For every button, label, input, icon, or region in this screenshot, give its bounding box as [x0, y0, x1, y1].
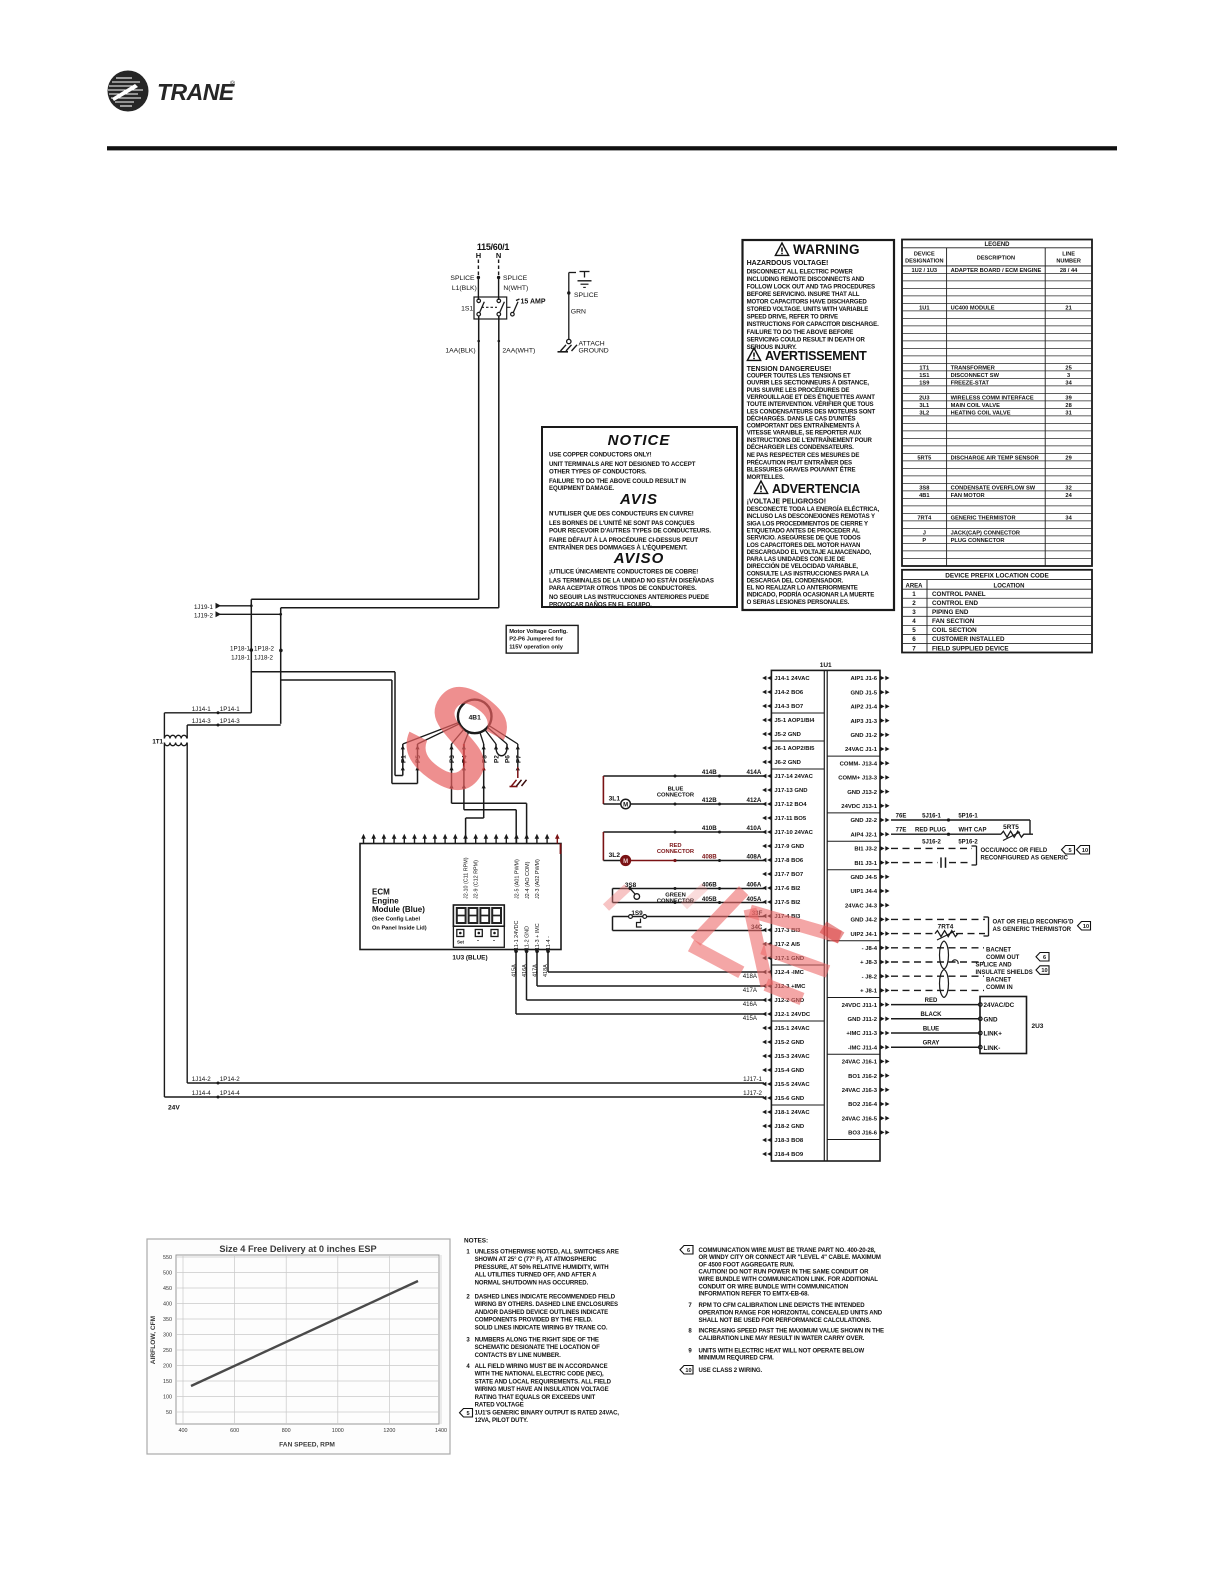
controller 1U1 box [771, 670, 880, 1161]
notice box [542, 427, 737, 607]
svg-text:ETIQUETADO ANTES DE PROCEDER A: ETIQUETADO ANTES DE PROCEDER AL [747, 527, 860, 534]
wire P4 to J2-5 [464, 809, 516, 811]
svg-text:250: 250 [163, 1348, 172, 1354]
svg-text:COMMUNICATION WIRE MUST BE TRA: COMMUNICATION WIRE MUST BE TRANE PART NO… [699, 1248, 876, 1254]
dashed J8-2 [891, 975, 984, 977]
svg-text:BO3 J16-6: BO3 J16-6 [848, 1131, 878, 1137]
svg-text:200: 200 [163, 1364, 172, 1370]
watermark faint stripe A [606, 888, 628, 908]
svg-text:WIRELESS COMM INTERFACE: WIRELESS COMM INTERFACE [951, 395, 1034, 401]
svg-text:1J18-2: 1J18-2 [254, 654, 273, 661]
svg-text:TOUTE INTERVENTION. VÉRIFIER: TOUTE INTERVENTION. VÉRIFIER QUE TOUS [747, 400, 874, 408]
svg-text:UNITS WITH ELECTRIC HEAT WILL: UNITS WITH ELECTRIC HEAT WILL NOT OPERAT… [699, 1348, 865, 1354]
dashed BI1 J3-1 with capacitor [891, 862, 938, 864]
svg-text:417A: 417A [533, 964, 539, 977]
svg-text:25: 25 [1065, 365, 1071, 371]
svg-text:J15-6 GND: J15-6 GND [774, 1096, 804, 1102]
svg-text:AIP2 J1-4: AIP2 J1-4 [850, 705, 877, 711]
wire 417A J11-3 to J12-3 [536, 950, 538, 987]
svg-text:1U3 (BLUE): 1U3 (BLUE) [452, 955, 487, 962]
svg-text:COUPER TOUTES LES TENSIONS ET: COUPER TOUTES LES TENSIONS ET [747, 373, 851, 380]
svg-text:TRANE: TRANE [157, 79, 235, 105]
svg-text:SCHEMATIC DESIGNATE THE LOCATI: SCHEMATIC DESIGNATE THE LOCATION OF [475, 1345, 601, 1351]
svg-text:H: H [476, 251, 481, 260]
svg-text:CALIBRATION LINE MAY RESULT IN: CALIBRATION LINE MAY RESULT IN WATER CAR… [699, 1336, 865, 1342]
svg-text:ADAPTER BOARD / ECM ENGINE: ADAPTER BOARD / ECM ENGINE [951, 268, 1042, 274]
svg-text:1AA(BLK): 1AA(BLK) [445, 348, 475, 355]
wire 2AA left vertical [280, 608, 282, 724]
svg-text:NOTICE: NOTICE [608, 432, 671, 449]
svg-text:M: M [623, 859, 628, 865]
svg-text:1P18-2: 1P18-2 [254, 645, 275, 652]
svg-text:CONNECTOR: CONNECTOR [657, 849, 695, 855]
svg-text:J6-1 AOP2/BI5: J6-1 AOP2/BI5 [774, 746, 815, 752]
svg-text:PUIS SUIVRE LES PROCÉDURES DE: PUIS SUIVRE LES PROCÉDURES DE [747, 386, 850, 394]
svg-text:RED: RED [925, 998, 938, 1004]
svg-text:24V: 24V [168, 1105, 180, 1112]
svg-text:SPEED DRIVE, REFER TO DRIVE: SPEED DRIVE, REFER TO DRIVE [747, 314, 838, 321]
watermark letter E strokes [750, 909, 767, 986]
svg-text:408A: 408A [747, 853, 762, 860]
svg-text:2U3: 2U3 [1032, 1023, 1044, 1030]
svg-text:TRANSFORMER: TRANSFORMER [951, 365, 995, 371]
svg-text:BLESSURES GRAVES POUVANT ÊTRE: BLESSURES GRAVES POUVANT ÊTRE [747, 466, 856, 474]
svg-text:WARNING: WARNING [793, 242, 860, 257]
tag 10 bacnet [1036, 966, 1049, 975]
svg-text:450: 450 [163, 1286, 172, 1292]
wire 1AA left vertical [250, 599, 252, 713]
svg-text:LOS CAPACITORES DEL MOTOR HAYA: LOS CAPACITORES DEL MOTOR HAYAN [747, 542, 861, 549]
svg-text:1S1: 1S1 [461, 306, 473, 313]
svg-text:ADVERTENCIA: ADVERTENCIA [772, 482, 860, 496]
svg-text:DISCHARGE AIR TEMP SENSOR: DISCHARGE AIR TEMP SENSOR [951, 455, 1039, 461]
svg-text:J18-1 24VAC: J18-1 24VAC [774, 1110, 810, 1116]
svg-text:J17-13 GND: J17-13 GND [774, 788, 807, 794]
ECM module box [360, 844, 561, 950]
wire P3 to J2-4 [452, 802, 527, 804]
svg-text:24VAC J16-3: 24VAC J16-3 [842, 1088, 878, 1094]
svg-text:3L2: 3L2 [609, 852, 621, 859]
wire 418A J11-4 to J12-4 [547, 950, 549, 973]
svg-text:NUMBER: NUMBER [1056, 259, 1081, 265]
svg-text:PRESSURE, AT 50% RELATIVE HUMI: PRESSURE, AT 50% RELATIVE HUMIDITY, WITH [475, 1265, 609, 1271]
svg-text:Motor Voltage Config.: Motor Voltage Config. [509, 629, 568, 635]
svg-text:FAILURE TO DO THE ABOVE COULD: FAILURE TO DO THE ABOVE COULD RESULT IN [549, 478, 686, 485]
svg-text:J11-4 -: J11-4 - [546, 936, 552, 953]
svg-text:CONTACTS BY LINE NUMBER.: CONTACTS BY LINE NUMBER. [475, 1353, 561, 1359]
svg-text:J5-2 GND: J5-2 GND [774, 732, 801, 738]
svg-text:SPLICE: SPLICE [503, 275, 528, 282]
svg-text:412B: 412B [702, 797, 717, 804]
svg-text:CUSTOMER INSTALLED: CUSTOMER INSTALLED [932, 636, 1005, 643]
ECM top right red wire [560, 844, 562, 855]
svg-text:MOTOR CAPACITORS HAVE DISCHARG: MOTOR CAPACITORS HAVE DISCHARGED [747, 299, 868, 306]
svg-text:J17-6 BI2: J17-6 BI2 [774, 886, 801, 892]
svg-text:COMM- J13-4: COMM- J13-4 [840, 761, 878, 767]
svg-text:FAIRE DÉFAUT À LA PROCÉDURE CI: FAIRE DÉFAUT À LA PROCÉDURE CI-DESSUS PE… [549, 536, 698, 544]
svg-text:FAN SECTION: FAN SECTION [932, 618, 975, 625]
svg-text:28: 28 [1065, 403, 1071, 409]
svg-text:Set: Set [457, 940, 465, 945]
svg-text:5: 5 [466, 1411, 469, 1417]
wire 416A J11-2 to J12-2 [526, 950, 528, 1001]
svg-text:HAZARDOUS VOLTAGE!: HAZARDOUS VOLTAGE! [747, 260, 829, 267]
svg-text:24VDC J13-1: 24VDC J13-1 [841, 804, 877, 810]
svg-text:418A: 418A [743, 973, 758, 980]
fan motor 4B1 [458, 700, 492, 734]
svg-text:1U1: 1U1 [820, 662, 832, 669]
dashed J8-3 [891, 961, 984, 963]
svg-text:416A: 416A [522, 964, 528, 977]
svg-text:COMM OUT: COMM OUT [986, 955, 1020, 961]
svg-text:400: 400 [163, 1302, 172, 1308]
1U1 left group lines [771, 712, 824, 714]
legend table [902, 240, 1092, 567]
svg-text:CONDENSATE OVERFLOW SW: CONDENSATE OVERFLOW SW [951, 485, 1036, 491]
svg-text:1J18-1: 1J18-1 [231, 654, 250, 661]
warning heading [775, 243, 788, 255]
svg-text:WITH THE NATIONAL ELECTRIC COD: WITH THE NATIONAL ELECTRIC CODE (NEC), [475, 1372, 604, 1378]
svg-text:OUVRIR LES SECTIONNEURS À DIST: OUVRIR LES SECTIONNEURS À DISTANCE, [747, 380, 870, 387]
svg-text:24VAC J1-1: 24VAC J1-1 [845, 747, 878, 753]
svg-text:WIRE BUNDLE WITH COMMUNICATION: WIRE BUNDLE WITH COMMUNICATION LINK. FOR… [699, 1277, 879, 1283]
connector dots on columns [401, 745, 405, 749]
svg-text:1: 1 [912, 591, 916, 598]
svg-text:O SERIAS LESIONES PERSONALES.: O SERIAS LESIONES PERSONALES. [747, 599, 850, 606]
svg-text:®: ® [230, 80, 236, 88]
svg-text:418A: 418A [543, 964, 549, 977]
svg-text:ECM: ECM [372, 888, 390, 897]
svg-text:LAS TERMINALES DE LA UNIDAD NO: LAS TERMINALES DE LA UNIDAD NO ESTÁN DIS… [549, 578, 714, 585]
svg-text:AVISO: AVISO [613, 550, 665, 567]
svg-text:RED PLUG: RED PLUG [915, 828, 946, 834]
svg-text:AIP1 J1-6: AIP1 J1-6 [850, 676, 877, 682]
svg-text:7RT4: 7RT4 [938, 924, 954, 931]
ECM 7-segment display [453, 905, 504, 926]
top rule [107, 146, 1117, 150]
3L1 loop vertical [602, 776, 604, 804]
svg-text:1U1'S GENERIC BINARY OUTPUT IS: 1U1'S GENERIC BINARY OUTPUT IS RATED 24V… [475, 1411, 620, 1417]
1U1 right group lines [827, 755, 880, 757]
fan motor leads [403, 716, 475, 744]
3L2 loop vertical [602, 832, 604, 861]
svg-text:1T1: 1T1 [919, 365, 929, 371]
svg-text:AIRFLOW, CFM: AIRFLOW, CFM [150, 1315, 157, 1364]
svg-text:GND J4-5: GND J4-5 [850, 875, 877, 881]
svg-text:J14-3 BO7: J14-3 BO7 [774, 704, 804, 710]
svg-text:DEVICE: DEVICE [914, 252, 935, 258]
svg-text:J11-3 + IMC: J11-3 + IMC [535, 923, 541, 952]
svg-text:N'UTILISER QUE DES CONDUCTEURS: N'UTILISER QUE DES CONDUCTEURS EN CUIVRE… [549, 511, 694, 518]
svg-text:J17-12 BO4: J17-12 BO4 [774, 802, 807, 808]
svg-text:SOLID LINES INDICATE WIRING BY: SOLID LINES INDICATE WIRING BY TRANE CO. [475, 1325, 608, 1331]
svg-text:MAIN COIL VALVE: MAIN COIL VALVE [951, 403, 1000, 409]
svg-text:J12-4 -IMC: J12-4 -IMC [774, 970, 804, 976]
svg-text:39: 39 [1065, 395, 1071, 401]
svg-text:ALL UTILITIES TURNED OFF, AND: ALL UTILITIES TURNED OFF, AND AFTER A [475, 1273, 598, 1279]
svg-text:GROUND: GROUND [579, 348, 609, 355]
splice dot GRN [567, 291, 570, 294]
svg-text:DESCRIPTION: DESCRIPTION [977, 256, 1015, 262]
svg-text:4B1: 4B1 [919, 493, 929, 499]
svg-text:-: - [477, 939, 479, 945]
wire to P5 column [281, 679, 392, 681]
motor pin columns [451, 744, 453, 803]
svg-text:MINIMUM REQUIRED CFM.: MINIMUM REQUIRED CFM. [699, 1356, 775, 1362]
svg-text:3L1: 3L1 [609, 796, 621, 803]
svg-text:Module (Blue): Module (Blue) [372, 905, 425, 914]
svg-text:GND J1-5: GND J1-5 [850, 690, 877, 696]
svg-text:GND J2-2: GND J2-2 [850, 818, 877, 824]
svg-text:FIELD SUPPLIED DEVICE: FIELD SUPPLIED DEVICE [932, 645, 1009, 652]
svg-text:J5-1 AOP1/BI4: J5-1 AOP1/BI4 [774, 718, 815, 724]
svg-text:UNIT TERMINALS ARE NOT DESIGNE: UNIT TERMINALS ARE NOT DESIGNED TO ACCEP… [549, 461, 696, 468]
svg-text:1J17-1: 1J17-1 [743, 1076, 762, 1083]
svg-text:OAT OR FIELD RECONFIG'D: OAT OR FIELD RECONFIG'D [993, 919, 1075, 925]
svg-text:P2-P6 Jumpered for: P2-P6 Jumpered for [509, 637, 564, 643]
junction 1P18-2 / 1J18-2 [279, 649, 283, 653]
svg-text:416A: 416A [743, 1001, 758, 1008]
svg-text:COMPONENTS PROVIDED BY THE FIE: COMPONENTS PROVIDED BY THE FIELD. [475, 1318, 593, 1324]
TRANE logo [108, 71, 237, 112]
svg-text:J17-14 24VAC: J17-14 24VAC [774, 774, 813, 780]
svg-text:34: 34 [1065, 515, 1072, 521]
svg-text:5P16-1: 5P16-1 [958, 813, 978, 819]
dashed J8-1 [891, 989, 984, 991]
svg-text:415A: 415A [743, 1015, 758, 1022]
svg-text:¡UTILICE ÚNICAMENTE CONDUCTORE: ¡UTILICE ÚNICAMENTE CONDUCTORES DE COBRE… [549, 569, 698, 576]
wire 415A J11-1 to J12-1 [515, 950, 517, 1015]
svg-text:+IMC J11-3: +IMC J11-3 [846, 1031, 877, 1037]
svg-text:LES CONDENSATEURS DES MOTEURS: LES CONDENSATEURS DES MOTEURS SONT [747, 408, 876, 415]
svg-text:1J14-4: 1J14-4 [192, 1090, 211, 1097]
svg-text:408B: 408B [702, 853, 717, 860]
svg-text:UC400 MODULE: UC400 MODULE [951, 305, 995, 311]
svg-text:FOLLOW LOCK OUT AND TAG PROCED: FOLLOW LOCK OUT AND TAG PROCEDURES [747, 284, 875, 291]
svg-text:JACK(CAP) CONNECTOR: JACK(CAP) CONNECTOR [951, 530, 1020, 536]
svg-text:77E: 77E [896, 828, 907, 834]
splice dot H [477, 276, 480, 279]
svg-text:100: 100 [163, 1395, 172, 1401]
svg-text:¡VOLTAJE PELIGROSO!: ¡VOLTAJE PELIGROSO! [747, 499, 826, 506]
svg-text:AND/OR DASHED DEVICE OUTLINES: AND/OR DASHED DEVICE OUTLINES INDICATE [475, 1310, 609, 1316]
svg-text:DASHED LINES INDICATE RECOMMEN: DASHED LINES INDICATE RECOMMENDED FIELD [475, 1295, 616, 1301]
watermark letter L strokes [696, 891, 744, 942]
svg-text:AVIS: AVIS [619, 491, 658, 508]
svg-text:On Panel Inside Lid): On Panel Inside Lid) [372, 926, 427, 932]
svg-text:+ J8-1: + J8-1 [860, 989, 878, 995]
svg-text:34: 34 [1065, 380, 1072, 386]
svg-text:LINE: LINE [1062, 252, 1075, 258]
svg-text:NUMBERS ALONG THE RIGHT SIDE O: NUMBERS ALONG THE RIGHT SIDE OF THE [475, 1338, 599, 1344]
wire 1J14-3 primary [186, 725, 188, 739]
svg-text:3S8: 3S8 [919, 485, 929, 491]
dashed GND J4-2 [891, 918, 985, 920]
svg-text:24VAC J4-3: 24VAC J4-3 [845, 903, 878, 909]
svg-text:4: 4 [912, 618, 916, 625]
chassis ground [558, 351, 569, 353]
svg-text:Engine: Engine [372, 896, 399, 905]
svg-text:J15-4 GND: J15-4 GND [774, 1068, 804, 1074]
svg-text:INCLUSO LAS DESCONEXIONES REMO: INCLUSO LAS DESCONEXIONES REMOTAS Y [747, 513, 875, 520]
svg-text:1200: 1200 [383, 1428, 395, 1434]
svg-text:CAUTION! DO NOT RUN POWER IN: CAUTION! DO NOT RUN POWER IN THE SAME CO… [699, 1270, 870, 1276]
wire P8 to J2-10 [466, 817, 484, 819]
svg-text:ALL FIELD WIRING MUST BE IN AC: ALL FIELD WIRING MUST BE IN ACCORDANCE [475, 1364, 608, 1370]
svg-text:1J17-2: 1J17-2 [743, 1090, 762, 1097]
earth ground symbol [580, 271, 590, 273]
note 5 tag [460, 1409, 473, 1418]
wire RED to 2U3 [891, 1004, 979, 1006]
svg-text:CONDUIT OR WIRE BUNDLE WITH CO: CONDUIT OR WIRE BUNDLE WITH COMMUNICATIO… [699, 1284, 849, 1290]
wire GRN [568, 293, 570, 339]
svg-text:115V operation only: 115V operation only [509, 644, 564, 650]
ECM buttons [453, 926, 504, 947]
svg-text:BO1 J16-2: BO1 J16-2 [848, 1074, 878, 1080]
svg-text:LES BORNES DE L'UNITÉ NE SONT: LES BORNES DE L'UNITÉ NE SONT PAS CONÇUE… [549, 519, 695, 527]
svg-text:1P14-2: 1P14-2 [220, 1076, 241, 1083]
svg-text:DESIGNATION: DESIGNATION [905, 259, 943, 265]
svg-text:PLUG CONNECTOR: PLUG CONNECTOR [951, 538, 1005, 544]
svg-text:SPLICE AND: SPLICE AND [976, 962, 1013, 968]
svg-text:J2-5 (A01 PWM): J2-5 (A01 PWM) [515, 859, 521, 899]
wire 1AA(BLK) [478, 316, 480, 599]
svg-text:RATED VOLTAGE: RATED VOLTAGE [475, 1403, 524, 1409]
avertissement heading [747, 348, 760, 360]
svg-text:600: 600 [230, 1428, 239, 1434]
svg-text:USE COPPER CONDUCTORS ONLY!: USE COPPER CONDUCTORS ONLY! [549, 452, 652, 459]
svg-text:WHT CAP: WHT CAP [959, 828, 987, 834]
svg-text:24VAC/DC: 24VAC/DC [984, 1002, 1015, 1009]
svg-text:STORED VOLTAGE. UNITS WITH VA: STORED VOLTAGE. UNITS WITH VARIABLE [747, 306, 869, 313]
svg-text:-IMC J11-4: -IMC J11-4 [848, 1045, 878, 1051]
tag 5 [1062, 846, 1075, 855]
stub 1J19-1 [216, 605, 251, 607]
svg-text:POUR RECEVOIR D'AUTRES TYPES D: POUR RECEVOIR D'AUTRES TYPES DE CONDUCTE… [549, 527, 711, 534]
wire GRAY to 2U3 [891, 1046, 979, 1048]
svg-text:L1(BLK): L1(BLK) [452, 285, 477, 292]
svg-text:J17-10 24VAC: J17-10 24VAC [774, 830, 813, 836]
svg-text:415A: 415A [511, 964, 517, 977]
svg-text:1T1: 1T1 [152, 739, 163, 746]
svg-text:SERVICING COULD RESULT IN DEAT: SERVICING COULD RESULT IN DEATH OR [747, 337, 866, 344]
svg-text:5RT5: 5RT5 [1003, 824, 1019, 831]
svg-text:INSTRUCTIONS DE L'ENTRAÎNEMENT: INSTRUCTIONS DE L'ENTRAÎNEMENT POUR [747, 436, 873, 444]
wire 414 J17-14 [603, 775, 764, 777]
svg-text:WIRING BY OTHERS. DASHED LINE: WIRING BY OTHERS. DASHED LINE ENCLOSURES [475, 1302, 618, 1308]
svg-text:J18-2 GND: J18-2 GND [774, 1124, 804, 1130]
svg-text:STATE AND LOCAL REQUIREMENTS.: STATE AND LOCAL REQUIREMENTS. ALL FIELD [475, 1379, 612, 1385]
svg-text:5RT5: 5RT5 [917, 455, 931, 461]
note 10 tag [680, 1366, 693, 1375]
svg-text:BACNET: BACNET [986, 947, 1011, 953]
wire to P1 column [251, 671, 395, 673]
svg-text:J18-4 BO9: J18-4 BO9 [774, 1152, 804, 1158]
calibration line [191, 1281, 418, 1386]
wire 2AA(WHT) [498, 316, 500, 608]
svg-text:24: 24 [1065, 493, 1072, 499]
svg-text:406A: 406A [747, 881, 762, 888]
svg-text:24VAC J16-5: 24VAC J16-5 [842, 1116, 878, 1122]
wire 410 J17-10 [603, 831, 764, 833]
svg-text:7RT4: 7RT4 [917, 515, 932, 521]
switch 1S9 circuit [613, 916, 765, 918]
svg-text:SHOWN AT 25° C (77° F), AT ATM: SHOWN AT 25° C (77° F), AT ATMOSPHERIC [475, 1257, 598, 1263]
motor chassis ground [510, 786, 518, 788]
svg-text:J18-3 BO8: J18-3 BO8 [774, 1138, 804, 1144]
svg-text:- J8-4: - J8-4 [862, 946, 878, 952]
svg-text:24VAC J16-1: 24VAC J16-1 [842, 1060, 878, 1066]
tag 10 thermistor [1078, 922, 1091, 931]
svg-text:GENERIC THERMISTOR: GENERIC THERMISTOR [951, 515, 1016, 521]
svg-text:6: 6 [687, 1248, 690, 1254]
svg-text:1S9: 1S9 [631, 910, 643, 917]
svg-text:PARA ACEPTAR OTROS TIPOS DE CO: PARA ACEPTAR OTROS TIPOS DE CONDUCTORES. [549, 585, 697, 592]
svg-text:1S1: 1S1 [919, 373, 929, 379]
svg-text:BI1 J3-2: BI1 J3-2 [854, 847, 877, 853]
svg-text:DESCONECTE TODA LA ENERGÍA ELÉ: DESCONECTE TODA LA ENERGÍA ELÉCTRICA, [747, 505, 880, 513]
svg-text:5P16-2: 5P16-2 [958, 840, 978, 846]
svg-text:1J14-1: 1J14-1 [192, 706, 211, 713]
svg-text:BLACK: BLACK [921, 1012, 943, 1018]
svg-text:RATING THAT EQUALS OR EXCEEDS: RATING THAT EQUALS OR EXCEEDS UNIT [475, 1395, 596, 1401]
svg-text:1P18-1: 1P18-1 [230, 645, 251, 652]
svg-text:LINK-: LINK- [984, 1045, 1001, 1052]
svg-text:P: P [922, 538, 926, 544]
svg-text:414B: 414B [702, 769, 717, 776]
note 6 tag [680, 1246, 693, 1255]
svg-text:DÉCHARGER LES CONDENSATEURS.: DÉCHARGER LES CONDENSATEURS. [747, 443, 855, 451]
svg-text:-: - [493, 939, 495, 945]
wire P7 to ground [517, 744, 519, 767]
svg-text:J12-1 24VDC: J12-1 24VDC [774, 1012, 810, 1018]
svg-text:NO SEGUIR LAS INSTRUCCIONES AN: NO SEGUIR LAS INSTRUCCIONES ANTERIORES P… [549, 594, 709, 601]
tag 10 [1077, 846, 1090, 855]
svg-text:AIP4 J2-1: AIP4 J2-1 [850, 832, 877, 838]
svg-text:12VA, PILOT DUTY.: 12VA, PILOT DUTY. [475, 1418, 529, 1424]
svg-text:1400: 1400 [435, 1428, 447, 1434]
svg-text:AS GENERIC THERMISTOR: AS GENERIC THERMISTOR [993, 927, 1072, 933]
svg-text:SPLICE: SPLICE [574, 292, 599, 299]
svg-text:6: 6 [912, 636, 916, 643]
svg-text:J11-1 24VDC: J11-1 24VDC [514, 920, 520, 952]
svg-text:15 AMP: 15 AMP [521, 299, 546, 306]
switch 3S8 circuit [612, 889, 614, 903]
svg-text:FAN SPEED, RPM: FAN SPEED, RPM [279, 1442, 335, 1449]
svg-text:FREEZE-STAT: FREEZE-STAT [951, 380, 990, 386]
svg-text:405B: 405B [702, 896, 717, 903]
splice shield comm out [940, 941, 949, 969]
svg-text:J6-2 GND: J6-2 GND [774, 760, 801, 766]
svg-text:INDICADO, PODRÍA OCASIONAR LA: INDICADO, PODRÍA OCASIONAR LA MUERTE [747, 591, 875, 599]
wire N to switch [498, 278, 500, 301]
svg-text:(See Config Label: (See Config Label [372, 917, 420, 923]
svg-text:COMM IN: COMM IN [986, 985, 1013, 991]
svg-text:INFORMATION REFER TO EMTX-EB-6: INFORMATION REFER TO EMTX-EB-68. [699, 1292, 810, 1298]
svg-text:EL NO REALIZAR LO ANTERIORMENT: EL NO REALIZAR LO ANTERIORMENTE [747, 585, 858, 592]
svg-text:800: 800 [282, 1428, 291, 1434]
svg-text:DESCARGADO EL VOLTAJE ALMACENA: DESCARGADO EL VOLTAJE ALMACENADO, [747, 549, 872, 556]
svg-text:7: 7 [912, 645, 916, 652]
svg-text:LEGEND: LEGEND [984, 242, 1010, 248]
svg-text:76E: 76E [896, 813, 907, 819]
svg-text:SIGA LOS PROCEDIMIENTOS DE CIE: SIGA LOS PROCEDIMIENTOS DE CIERRE Y [747, 520, 868, 527]
svg-text:J2-10 (C11 RPM): J2-10 (C11 RPM) [464, 857, 470, 899]
svg-text:J15-1 24VAC: J15-1 24VAC [774, 1026, 810, 1032]
svg-text:5J16-1: 5J16-1 [922, 813, 941, 819]
svg-text:GRAY: GRAY [923, 1041, 940, 1047]
svg-text:INCREASING SPEED PAST THE MAXI: INCREASING SPEED PAST THE MAXIMUM VALUE … [699, 1329, 884, 1335]
